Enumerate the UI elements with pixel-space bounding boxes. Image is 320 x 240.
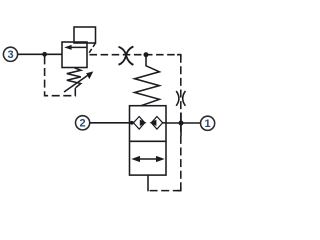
port 1 bbox=[201, 116, 215, 130]
svg-text:3: 3 bbox=[7, 49, 13, 61]
relief valve RV body bbox=[62, 42, 87, 68]
wire dashed bottom run bbox=[148, 190, 181, 192]
port 2 bbox=[76, 116, 90, 130]
wire diagonal dashed from pilot box to vent line bbox=[89, 43, 96, 54]
left check poppet symbol bbox=[130, 117, 147, 130]
node junction top of spring bbox=[144, 52, 149, 57]
port 3 bbox=[3, 47, 17, 61]
relief valve adjustment arrow bbox=[64, 71, 93, 92]
wire corner bottom right bbox=[177, 187, 181, 191]
valve double arrow bbox=[131, 156, 164, 162]
relief valve top pilot box bbox=[74, 27, 96, 43]
relief valve spring bbox=[67, 68, 81, 88]
plugged vent port X symbol bbox=[119, 47, 134, 65]
wire valve to port 1 bbox=[166, 122, 200, 124]
wire vent dashed line to X bbox=[90, 54, 181, 56]
wire solid stub through junction bbox=[180, 113, 182, 137]
wire corner top right bbox=[177, 55, 181, 59]
node junction on port 1 line bbox=[179, 121, 184, 126]
pilot valve spring upper bbox=[135, 57, 160, 106]
right check poppet symbol bbox=[150, 117, 166, 130]
wire port3 to relief valve bbox=[18, 53, 62, 55]
wire solid stub from valve bottom bbox=[147, 175, 149, 191]
relief valve flow arrow bbox=[64, 45, 86, 50]
wire pilot dashed loop to relief spring bbox=[45, 56, 76, 95]
wire dashed right vertical bbox=[180, 55, 182, 191]
orifice restriction bbox=[176, 91, 185, 106]
wire port 2 to valve bbox=[90, 122, 130, 124]
node junction below port 3 line bbox=[42, 52, 47, 57]
svg-text:2: 2 bbox=[80, 118, 86, 130]
main valve body boxes bbox=[130, 106, 167, 175]
svg-text:1: 1 bbox=[205, 118, 211, 130]
